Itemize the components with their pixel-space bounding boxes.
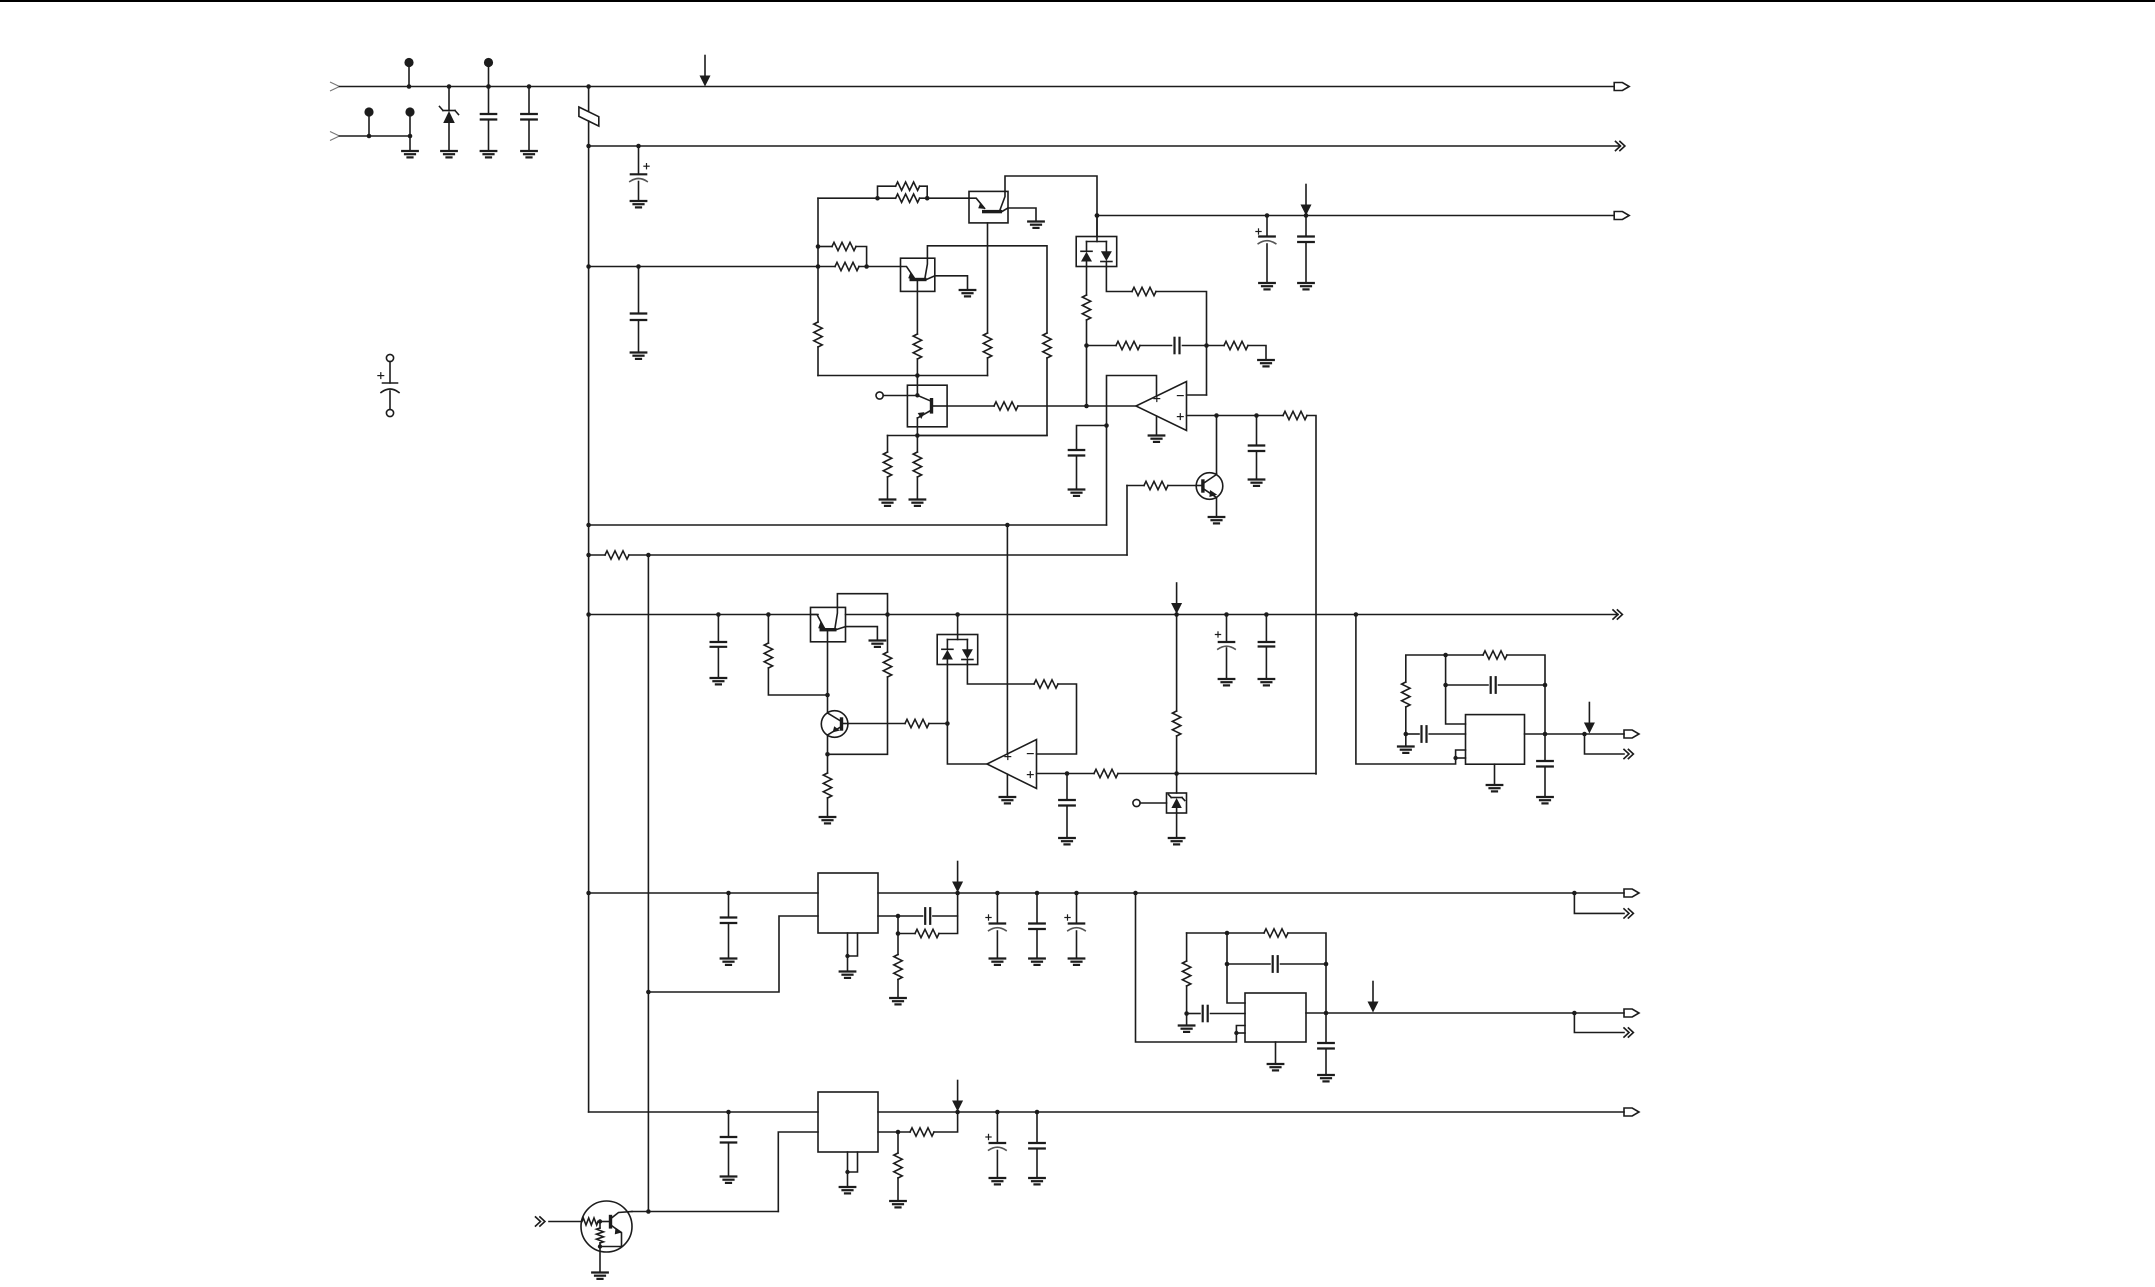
- power arrow rail3: [1305, 185, 1307, 206]
- resistor R23: [905, 719, 929, 727]
- wire rail5 a: [589, 554, 605, 556]
- connector rail7 output2: [1624, 909, 1629, 918]
- capacitor C16: [1420, 726, 1422, 742]
- wire C26 bottom: [728, 1143, 730, 1177]
- wire Q3 collector loop: [837, 594, 887, 615]
- node VR1 fb: [896, 914, 901, 919]
- ground R34: [890, 1200, 906, 1202]
- resistor R27: [1402, 682, 1410, 707]
- node rail3 tap: [1095, 213, 1100, 218]
- ground C27: [990, 1177, 1006, 1179]
- node U3 fb2: [1443, 683, 1448, 688]
- node U4 out2: [1572, 1011, 1577, 1016]
- wire U4 fb res b: [1288, 933, 1326, 1013]
- node minus col: [1204, 343, 1209, 348]
- wire Q6 base a: [1127, 485, 1144, 487]
- ground D1: [441, 150, 457, 152]
- resistor R5 upper: [896, 182, 920, 190]
- node RC left: [1084, 343, 1089, 348]
- node r266 bus: [586, 264, 591, 269]
- wire U2 plus: [1037, 773, 1068, 775]
- wire C12 bottom: [1066, 806, 1068, 839]
- node U4 out1: [1324, 1011, 1329, 1016]
- resistor R3 lower: [835, 262, 859, 270]
- wire C10 top: [1256, 416, 1258, 446]
- power arrow rail1: [704, 56, 706, 77]
- node rail375 Q5: [915, 373, 920, 378]
- wire C2 bottom: [528, 120, 530, 152]
- wire U4 out branch: [1574, 1013, 1624, 1033]
- ground C28: [1029, 1177, 1045, 1179]
- node Q4 collector: [825, 693, 830, 698]
- wire rail4: [589, 524, 1107, 526]
- node U4 in: [1184, 1011, 1189, 1016]
- wire C11 top: [717, 615, 719, 642]
- wire D3 entry: [957, 615, 959, 640]
- wire C2 top: [528, 87, 530, 115]
- capacitor C2: [521, 113, 537, 115]
- wire C20 bottom: [996, 931, 998, 959]
- node U4 jog: [1234, 1031, 1238, 1035]
- transistor Q5 box: [907, 385, 947, 427]
- wire R30 bottom: [897, 980, 899, 999]
- wire Q6 collector: [1216, 416, 1218, 474]
- resistor R35: [597, 1228, 604, 1243]
- test point TP3: [364, 107, 373, 116]
- node rail6 R20: [766, 612, 771, 617]
- wire C21 bottom: [1036, 929, 1038, 959]
- ground R10: [880, 498, 896, 500]
- node x648 VR1: [646, 990, 651, 995]
- resistor R7: [1043, 333, 1051, 358]
- resistor R4: [814, 322, 822, 347]
- wire Q4 emitter: [827, 735, 829, 754]
- connector U4 output2: [1624, 1028, 1629, 1037]
- resistor R24: [1034, 680, 1058, 688]
- wire Q5 base: [883, 395, 917, 397]
- wire D4 terminal: [1140, 802, 1166, 804]
- capacitor C23: [1202, 1006, 1204, 1021]
- resistor R17: [1283, 411, 1307, 419]
- node rail3 C6: [1265, 213, 1270, 218]
- wire U4 in gnd: [1186, 1014, 1188, 1026]
- wire R26 bottom: [1176, 736, 1178, 774]
- wire U1 minus: [1187, 394, 1207, 396]
- node r266 C5: [636, 264, 641, 269]
- wire D3 right leg: [967, 665, 1034, 685]
- wire U3 in gnd: [1405, 734, 1407, 747]
- node rail8 VR2: [955, 1110, 960, 1115]
- wire x818 lower: [817, 347, 819, 376]
- ground U1: [1149, 434, 1165, 436]
- wire R34 bottom: [897, 1178, 899, 1201]
- wire rail2: [589, 145, 1620, 147]
- wire C4 bottom: [389, 391, 391, 409]
- connector rail3 output: [1614, 212, 1629, 220]
- ground input2: [402, 150, 418, 152]
- connector Q7 input: [536, 1217, 541, 1226]
- transistor Q5: [917, 395, 929, 400]
- ground VR2: [840, 1186, 856, 1188]
- ground Q2: [960, 289, 976, 291]
- ground C1: [481, 150, 497, 152]
- wire R21 top: [887, 615, 889, 653]
- resistor R16: [1224, 341, 1248, 349]
- node rail3 D2: [1095, 213, 1100, 218]
- wire U4 left col: [1186, 933, 1188, 961]
- node rail6 D3: [955, 612, 960, 617]
- wire U4 supply: [1136, 893, 1246, 1042]
- resistor R2 upper: [832, 242, 856, 250]
- wire y435 row: [888, 435, 1048, 437]
- IC U4 box: [1245, 993, 1306, 1042]
- capacitor C24: [1272, 956, 1274, 972]
- wire VR1 out pin: [878, 915, 898, 917]
- node rail1 C1: [486, 84, 491, 89]
- wire C4 top: [389, 362, 391, 383]
- node rail4 U2vcc: [1005, 523, 1010, 528]
- ground C2: [521, 150, 537, 152]
- wire R34 top: [897, 1132, 899, 1153]
- ground C10: [1249, 478, 1265, 480]
- node rail4 bus: [586, 523, 591, 528]
- wire R5 loop b: [920, 186, 928, 198]
- wire rail3: [1097, 215, 1614, 217]
- wire R7 to y435: [917, 358, 1047, 436]
- resistor R31: [1182, 961, 1190, 986]
- regulator VR2 box: [818, 1092, 878, 1152]
- resistor R34: [894, 1153, 902, 1178]
- wire rail8 a: [589, 1111, 818, 1113]
- wire C28 bottom: [1036, 1149, 1038, 1179]
- ground C18: [721, 957, 737, 959]
- node rail1 C2: [527, 84, 532, 89]
- power arrow rail6: [1176, 583, 1178, 604]
- node U1 vcc tap: [1104, 423, 1109, 428]
- node U4 fb3: [1324, 962, 1329, 967]
- node TP1: [407, 84, 412, 89]
- resistor R18: [1144, 481, 1168, 489]
- wire rail1 VIN: [340, 86, 1615, 88]
- wire C14 top: [1265, 615, 1267, 643]
- test point TP4: [405, 107, 414, 116]
- diode pair D3 box: [937, 635, 978, 665]
- wire D4 top: [1176, 774, 1178, 794]
- wire U1 gnd stub: [1156, 416, 1158, 435]
- wire rail7 b: [878, 892, 1624, 894]
- wire R26 top: [1176, 615, 1178, 712]
- wire C22 bottom: [1076, 931, 1078, 959]
- capacitor C19: [924, 908, 926, 924]
- wire Q4 base a: [848, 723, 905, 725]
- wire x818 upper: [817, 198, 819, 322]
- node y435: [915, 433, 920, 438]
- wire R35 bottom: [599, 1243, 601, 1247]
- capacitor C14: [1259, 641, 1275, 643]
- capacitor C20 electrolytic: [990, 922, 1006, 924]
- wire C13 top: [1226, 615, 1228, 643]
- capacitor C6 electrolytic: [1259, 235, 1275, 237]
- connector rail2 output: [1616, 141, 1621, 150]
- wire Q7 input: [549, 1221, 582, 1223]
- power arrow rail8: [957, 1081, 959, 1102]
- connector U3 output: [1624, 730, 1639, 738]
- wire plus2 chain a: [1067, 773, 1094, 775]
- node rail7 VR1: [955, 891, 960, 896]
- wire U3 out: [1525, 733, 1625, 735]
- node pair2 right: [864, 264, 869, 269]
- wire D3 left leg: [947, 665, 987, 765]
- resistor R14: [1132, 287, 1156, 295]
- ground R11: [910, 498, 926, 500]
- node rail6 C13: [1224, 612, 1229, 617]
- wire VR2 res b: [934, 1112, 958, 1132]
- wire C7 top: [1305, 216, 1307, 237]
- wire VR1 cap a: [898, 915, 923, 917]
- node rail6 bus: [586, 612, 591, 617]
- terminal Q5 base: [876, 392, 883, 399]
- wire input2: [340, 135, 411, 137]
- wire R2 loop a: [818, 246, 832, 248]
- resistor R12: [994, 402, 1018, 410]
- wire TP3 stub: [368, 116, 370, 136]
- wire VR2 gnd pin a: [847, 1152, 849, 1187]
- wire TP1 stub: [408, 67, 410, 87]
- ground C6: [1259, 282, 1275, 284]
- ground U2: [1000, 796, 1016, 798]
- wire VR2 gnd pin b: [848, 1152, 858, 1172]
- connector rail7 output: [1624, 889, 1639, 897]
- resistor R13: [1082, 295, 1090, 320]
- wire R22 bottom: [827, 798, 829, 817]
- wire RC c: [1183, 345, 1225, 347]
- op-amp U2: [987, 740, 1037, 789]
- wire rail5 b: [629, 554, 1127, 556]
- wire U2 vcc col: [1006, 525, 1008, 754]
- wire Q5 top: [916, 376, 918, 396]
- wire R27 link: [1405, 707, 1407, 734]
- wire RC a: [1087, 345, 1117, 347]
- resistor R22: [823, 773, 831, 798]
- wire Q5 bottom: [916, 418, 918, 436]
- wire C20 top: [996, 893, 998, 924]
- node pair1 left: [875, 196, 880, 201]
- capacitor C3 electrolytic: [631, 173, 646, 175]
- wire U3 fb cap b: [1499, 684, 1546, 686]
- connector rail6 output: [1613, 610, 1618, 619]
- ground C20: [990, 957, 1006, 959]
- wire U4 fb res a: [1187, 932, 1264, 934]
- test point TP2: [484, 58, 493, 67]
- node rail6 Q3c: [885, 612, 890, 617]
- node rail5 x648: [646, 553, 651, 558]
- resistor R32: [1264, 929, 1288, 937]
- node rail7 C18: [726, 891, 731, 896]
- wire input2 gnd drop: [409, 136, 411, 151]
- node x818 R2a: [816, 244, 821, 249]
- wire Q4 base b: [929, 723, 947, 725]
- wire y196 link: [818, 197, 878, 199]
- transistor Q7 circle: [581, 1201, 632, 1252]
- wire Q1 bottom: [987, 223, 989, 333]
- transistor Q1: [969, 198, 985, 208]
- op-amp U1: [1136, 382, 1187, 431]
- capacitor C28: [1029, 1142, 1045, 1144]
- wire plus2 chain b: [1118, 773, 1316, 775]
- resistor R30: [894, 955, 902, 980]
- wire U4 in cap b: [1211, 1013, 1246, 1015]
- node U1 out: [1084, 404, 1089, 409]
- zener diode D1: [443, 110, 455, 112]
- node rail2 C3: [636, 144, 641, 149]
- resistor R25: [1094, 769, 1118, 777]
- wire VR1 res row: [898, 916, 915, 934]
- wire TP2 stub: [488, 67, 490, 87]
- wire C18 top: [728, 893, 730, 918]
- wire C27 top: [996, 1112, 998, 1143]
- node rail5 bus: [586, 553, 591, 558]
- wire U4 gnd stub: [1275, 1042, 1277, 1064]
- wire C21 top: [1036, 893, 1038, 924]
- wire R10 top: [887, 436, 889, 453]
- resistor R19: [605, 551, 629, 559]
- ground U3 in: [1398, 745, 1414, 747]
- capacitor C5: [631, 312, 646, 314]
- wire Q6 base b: [1168, 485, 1196, 487]
- wire rail8 b: [878, 1111, 1624, 1113]
- capacitor C10: [1249, 444, 1264, 446]
- resistor R29: [915, 929, 939, 937]
- IC U3 box: [1466, 715, 1525, 765]
- node U4 fb2: [1225, 962, 1230, 967]
- node rail7 bus: [586, 891, 591, 896]
- node pair1 right: [925, 196, 930, 201]
- node x648 Q7: [646, 1209, 651, 1214]
- node TP2: [486, 84, 491, 89]
- wire VR1 adj: [648, 916, 818, 992]
- wire R20 bottom: [768, 668, 827, 695]
- wire Q5 out a: [947, 405, 994, 407]
- wire R14 to minus: [1156, 292, 1207, 396]
- capacitor C21: [1029, 922, 1045, 924]
- wire R11 top: [916, 436, 918, 453]
- ground C9: [1069, 488, 1085, 490]
- node rail6 R26: [1174, 612, 1179, 617]
- wire RC b: [1140, 345, 1172, 347]
- top border bar: [0, 0, 2155, 2]
- wire Q7 collector: [632, 1211, 778, 1213]
- resistor R20: [764, 643, 772, 668]
- ground U3: [1487, 784, 1503, 786]
- wire C22 top: [1076, 893, 1078, 924]
- wire C6 bottom: [1266, 244, 1268, 283]
- wire x648 bus: [647, 555, 649, 1212]
- wire R6 b: [920, 197, 969, 199]
- wire Q1 emitter: [1008, 208, 1036, 222]
- capacitor C4 electrolytic: [383, 382, 398, 384]
- wire x1545: [1544, 685, 1546, 734]
- capacitor C27 electrolytic: [990, 1142, 1006, 1144]
- node U2 plus: [1065, 771, 1070, 776]
- power arrow U3: [1588, 703, 1590, 724]
- wire D2 right leg: [1106, 267, 1132, 292]
- wire Q5 out b: [1018, 405, 1136, 407]
- wire C14 bottom: [1265, 647, 1267, 680]
- node rail6 U3: [1354, 612, 1359, 617]
- capacitor C18: [721, 916, 736, 918]
- wire rail6 b: [846, 614, 1619, 616]
- wire U4 out: [1306, 1012, 1624, 1014]
- wire U3 in cap a: [1406, 733, 1419, 735]
- wire R30 top: [897, 934, 899, 955]
- wire U3 gnd stub: [1494, 764, 1496, 785]
- capacitor C11: [711, 641, 727, 643]
- node VR1 gnd: [845, 954, 849, 958]
- node rail2 bus: [586, 144, 591, 149]
- ground D4: [1169, 837, 1185, 839]
- wire R2 loop b: [856, 247, 867, 267]
- capacitor C22 electrolytic: [1069, 922, 1084, 924]
- wire VR1 cap b: [933, 893, 958, 916]
- wire C25 bottom: [1325, 1049, 1327, 1076]
- resistor R26: [1172, 711, 1180, 736]
- node U4 fb1: [1225, 931, 1230, 936]
- wire U3 fb col: [1446, 655, 1466, 724]
- wire C17 bottom: [1544, 767, 1546, 798]
- connector J2 input: [330, 132, 340, 141]
- node rail8 C27: [995, 1110, 1000, 1115]
- wire C10 bottom: [1256, 451, 1258, 480]
- wire main bus: [588, 121, 590, 1112]
- node Q7 base: [598, 1219, 602, 1223]
- terminal D4: [1133, 799, 1140, 806]
- ground R22: [820, 816, 836, 818]
- node x818 R3a: [816, 264, 821, 269]
- wire U4 in cap a: [1187, 1013, 1200, 1015]
- wire U1 plus: [1187, 415, 1217, 417]
- wire rail7 a: [589, 892, 818, 894]
- node TP4: [408, 134, 413, 139]
- wire C7 bottom: [1305, 242, 1307, 283]
- wire rail266 b: [859, 266, 901, 268]
- node rail7 C22: [1074, 891, 1079, 896]
- node rail8 C26: [726, 1110, 731, 1115]
- wire U3 supply: [1356, 615, 1466, 765]
- capacitor C4 terminal bottom: [386, 409, 393, 416]
- wire rail266 a: [589, 266, 835, 268]
- wire Q2 collector loop: [927, 246, 1047, 333]
- resistor R6 lower: [896, 194, 920, 202]
- node Q4 base: [945, 721, 950, 726]
- wire VR2 out pin: [878, 1131, 910, 1133]
- diode pair D3: [947, 639, 967, 641]
- capacitor C25: [1318, 1042, 1334, 1044]
- transistor Q4: [821, 711, 848, 738]
- wire D4 bottom: [1176, 813, 1178, 838]
- test point TP1: [404, 58, 413, 67]
- connector U3 output2: [1624, 749, 1629, 758]
- connector U4 output: [1624, 1009, 1639, 1017]
- wire R21 bottom: [828, 677, 888, 754]
- node plus2 z: [1174, 771, 1179, 776]
- wire U1 vcc: [1107, 376, 1157, 526]
- ground C11: [711, 677, 727, 679]
- ground R16: [1258, 359, 1274, 361]
- node plus1: [1214, 413, 1219, 418]
- transistor Q6: [1196, 473, 1223, 500]
- power arrow U4: [1372, 982, 1374, 1003]
- node VR1 fb2: [896, 931, 901, 936]
